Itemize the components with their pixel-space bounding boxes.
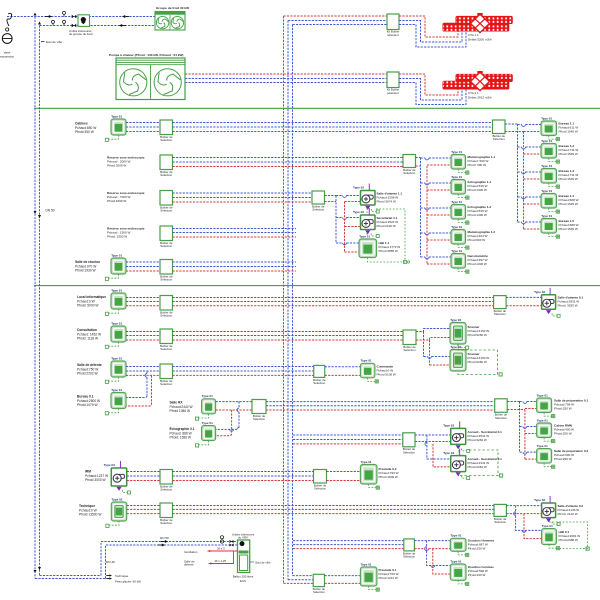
svg-text:46 x 1,25: 46 x 1,25 xyxy=(215,559,227,563)
svg-text:Pfroid 1800 W: Pfroid 1800 W xyxy=(107,199,126,203)
svg-text:Sélection: Sélection xyxy=(160,488,172,492)
riser Bureau column blue xyxy=(517,124,519,222)
wire row C3 left xyxy=(127,471,160,473)
svg-text:Type 01: Type 01 xyxy=(451,534,462,538)
riser Mammo column blue xyxy=(420,158,422,258)
wire kit1 to CTA1 blue loop 2 xyxy=(399,25,466,48)
selection box A2 xyxy=(160,155,173,177)
wire to Salle de préparation 0.1 xyxy=(520,401,524,403)
svg-text:Type 01: Type 01 xyxy=(451,559,462,563)
svg-text:Sélection: Sélection xyxy=(160,347,172,351)
wire D1R to Salle d'attente 0.2 xyxy=(506,505,541,507)
wire to scanner 2 xyxy=(424,356,428,358)
svg-text:Pompe à chaleur (Pfroid : 130: Pompe à chaleur (Pfroid : 130 kW, Pchaud… xyxy=(109,53,183,57)
fan coil Douches Femmes xyxy=(450,559,469,585)
wire B1R to unit xyxy=(506,296,541,298)
wire row B1 left xyxy=(126,297,160,299)
wire C1R to riser xyxy=(507,401,519,403)
svg-text:Type 01: Type 01 xyxy=(541,139,552,143)
selection box D2 right xyxy=(403,539,416,559)
fan coil Salle d'attente 1.1 xyxy=(353,184,379,214)
riser chilled supply xyxy=(287,21,289,580)
wire row D1 main xyxy=(173,505,495,507)
svg-text:Pfroid:1300 W: Pfroid:1300 W xyxy=(468,262,487,266)
wire B3R to Commande xyxy=(325,366,361,368)
svg-text:du VRV: du VRV xyxy=(238,535,248,539)
svg-text:Pfroid 1545 W: Pfroid 1545 W xyxy=(559,227,578,231)
svg-text:Type 03: Type 03 xyxy=(534,290,545,294)
svg-text:Pfroid 2118 W: Pfroid 2118 W xyxy=(377,224,396,228)
fan coil Bureau 0.1 xyxy=(105,388,126,415)
svg-text:Type 01: Type 01 xyxy=(451,225,462,229)
fan coil Échographie 1.1 xyxy=(451,175,469,199)
wire to Échographie 1.1 xyxy=(421,182,426,184)
svg-text:Pfroid 1545 W: Pfroid 1545 W xyxy=(559,177,578,181)
svg-text:Type 03: Type 03 xyxy=(353,210,364,214)
valves DN50 xyxy=(230,540,234,543)
wire kit2 to CTA2 blue loop 1 xyxy=(399,79,462,101)
pompe a chaleur unit xyxy=(116,58,185,100)
selection box A4 xyxy=(160,226,173,248)
vase expansion symbol xyxy=(2,13,12,43)
wire row B1 main xyxy=(173,297,494,299)
svg-text:Pfroid 13500 W: Pfroid 13500 W xyxy=(79,513,102,517)
indoor unit box groupe de froid xyxy=(78,15,90,27)
svg-text:Type 01: Type 01 xyxy=(451,175,462,179)
separator line floor 1 xyxy=(34,107,600,109)
svg-text:Sélection: Sélection xyxy=(494,520,506,524)
wire bottom main supply xyxy=(35,578,106,580)
svg-text:Pfroid:2088 W: Pfroid:2088 W xyxy=(559,538,578,542)
svg-text:Pfroid:1079 W: Pfroid:1079 W xyxy=(77,403,99,407)
svg-text:Type 03: Type 03 xyxy=(104,463,115,467)
wire D2R to Douches Hommes xyxy=(414,540,450,542)
fan coil Accueil 0.2 xyxy=(443,449,470,480)
fan coil Secretariat 1.1 xyxy=(353,208,379,238)
wire riser bottom turn xyxy=(293,575,314,577)
wire to Densitométrie xyxy=(421,256,426,258)
riser scanner red xyxy=(429,340,431,365)
wire VRV riser 2 xyxy=(106,545,239,579)
fan coil Bureau 1.4 xyxy=(541,189,559,213)
ballon ECS inner xyxy=(240,555,248,571)
svg-text:Type 02: Type 02 xyxy=(450,345,461,349)
fan coil Scanner 1 xyxy=(450,318,469,349)
svg-text:Peau glacée: 60 kW: Peau glacée: 60 kW xyxy=(115,579,141,583)
wire A2R to riser xyxy=(416,157,421,159)
fan coil Cabines xyxy=(105,114,126,141)
arrow on top line 1 xyxy=(49,15,52,18)
svg-text:Échographie 0.1: Échographie 0.1 xyxy=(170,426,195,431)
svg-text:Type 01: Type 01 xyxy=(537,418,548,422)
svg-text:Eau de ville: Eau de ville xyxy=(256,561,271,565)
wire to Salle d'attente 1.1 xyxy=(336,195,343,197)
ECS hot pipes xyxy=(208,550,238,552)
kit selection box 1 xyxy=(387,14,399,30)
fan coil Scanner 2 xyxy=(450,345,466,371)
svg-text:Sélection: Sélection xyxy=(313,590,325,594)
riser Bureau column red xyxy=(523,132,525,230)
fan coil Hall 0.1 xyxy=(542,524,560,550)
svg-text:Sélection: Sélection xyxy=(160,521,172,525)
riser cluster A3 red xyxy=(344,202,346,253)
label eau de ville ballon xyxy=(250,561,254,563)
wire B2R to scanner 1 xyxy=(416,329,450,332)
wire RX to boitier xyxy=(216,401,252,403)
svg-text:Type 01: Type 01 xyxy=(541,164,552,168)
wire to Bureau 1.1 xyxy=(518,124,522,126)
fan coil Mammographie 1.1 xyxy=(451,150,469,174)
selection box B1 xyxy=(160,296,173,318)
wire row A4 xyxy=(173,228,297,230)
svg-text:Type 01: Type 01 xyxy=(202,394,213,398)
bottom arrows technique xyxy=(109,574,112,576)
svg-text:Pfroid: 1118 W: Pfroid: 1118 W xyxy=(77,337,99,341)
svg-text:Type 03: Type 03 xyxy=(353,186,364,190)
selection box B1 right xyxy=(494,296,507,317)
svg-text:Sélection: Sélection xyxy=(494,312,506,316)
wire row B2 left xyxy=(126,331,160,333)
riser scanner blue xyxy=(423,332,425,357)
svg-text:Ventilation: Ventilation xyxy=(184,550,198,554)
wire row A1 main xyxy=(173,122,493,124)
svg-text:Sélection: Sélection xyxy=(160,244,172,248)
wire to Bureau 1.4 xyxy=(518,196,522,198)
selection box C1 right xyxy=(495,399,508,420)
svg-text:Type 02: Type 02 xyxy=(450,318,461,322)
selection box A3 right xyxy=(312,191,325,212)
fan coil Accueil 0.1 xyxy=(443,421,470,452)
air handling unit CTA 2.1 xyxy=(443,71,513,91)
riser accueil blue xyxy=(427,435,451,459)
wire A3R out xyxy=(325,195,337,197)
svg-text:DN 40: DN 40 xyxy=(106,560,115,564)
wire C2R to Accueil 1 xyxy=(415,434,451,436)
svg-text:Technique: Technique xyxy=(115,574,129,578)
svg-text:Type 01: Type 01 xyxy=(451,150,462,154)
fan coil Densitométrie xyxy=(451,249,469,273)
svg-text:Type 01: Type 01 xyxy=(111,321,122,325)
valves top lines xyxy=(72,15,77,19)
fan coil IRM xyxy=(104,461,131,494)
svg-text:CTA 1.1: CTA 1.1 xyxy=(468,33,479,37)
fan coil Local informatique xyxy=(105,288,126,315)
wire to Mammographie 1.1 xyxy=(421,157,426,159)
fan coil Consultation xyxy=(105,321,126,348)
selection box D1 right xyxy=(494,504,507,524)
junction arrows DN50 main xyxy=(34,211,37,214)
svg-text:Pfroid 5100 W: Pfroid 5100 W xyxy=(377,373,396,377)
svg-text:Sélection: Sélection xyxy=(160,314,172,318)
selection box RX xyxy=(252,400,266,422)
svg-text:Pfroid 1086 W: Pfroid 1086 W xyxy=(170,409,192,413)
riser douches red xyxy=(433,549,451,574)
junction arrows bottom left xyxy=(34,570,37,573)
svg-text:Sélection: Sélection xyxy=(160,173,172,177)
svg-text:Type 01: Type 01 xyxy=(111,114,122,118)
selection box B3 xyxy=(160,364,173,386)
wire kit1 to CTA1 hot loop xyxy=(399,16,458,37)
fan coil Technique xyxy=(106,497,127,527)
svg-text:Type 01: Type 01 xyxy=(541,116,552,120)
wire C3R to Prestade 0.2 xyxy=(327,471,361,473)
condensate accueil cluster xyxy=(459,450,498,476)
svg-text:Pfroid 1930 W: Pfroid 1930 W xyxy=(75,269,97,273)
svg-text:Sélection: Sélection xyxy=(403,450,415,454)
svg-text:Pfroid:1300 W: Pfroid:1300 W xyxy=(468,213,487,217)
wire row B3 left xyxy=(126,366,160,368)
wire HP-CTA2 hot xyxy=(185,73,387,75)
condensate scanner cluster xyxy=(458,344,498,375)
svg-text:Sélection: Sélection xyxy=(160,138,172,142)
svg-text:Type 01: Type 01 xyxy=(541,189,552,193)
selection box B2 right xyxy=(403,330,416,352)
svg-text:Sélection: Sélection xyxy=(160,382,172,386)
svg-text:Sélection: Sélection xyxy=(312,208,324,212)
svg-text:Sélection: Sélection xyxy=(403,171,415,175)
wire to Hall 1.1 xyxy=(336,242,343,244)
wire to Mammographie 1.2 xyxy=(421,232,426,234)
svg-text:Eau de ville: Eau de ville xyxy=(46,40,62,44)
wire row D1 left xyxy=(127,505,160,507)
wire row B2 main xyxy=(173,331,404,333)
riser cluster A3 blue xyxy=(335,196,337,244)
svg-text:Pfroid: 3535 W: Pfroid: 3535 W xyxy=(558,304,578,308)
sensors top lines xyxy=(63,14,65,16)
selection box B2 xyxy=(160,329,173,351)
svg-text:Type 01: Type 01 xyxy=(111,388,122,392)
selection box C2 right xyxy=(403,433,416,455)
svg-text:Pfroid 3674 W: Pfroid 3674 W xyxy=(377,200,396,204)
svg-text:Type 01: Type 01 xyxy=(111,253,122,257)
selection box D3 right xyxy=(313,574,326,594)
fan coil Prestade 0.1 xyxy=(360,562,379,591)
svg-text:Pfroid: 1500 W: Pfroid: 1500 W xyxy=(107,235,127,239)
wire chilled water main return xyxy=(39,26,41,576)
svg-text:Pfroid:350 W: Pfroid:350 W xyxy=(75,130,95,134)
svg-text:Pfroid:230 W: Pfroid:230 W xyxy=(468,573,486,577)
wire top line 1 xyxy=(7,16,155,18)
riser accueil red xyxy=(433,444,451,467)
groupe de froid unit xyxy=(155,12,185,31)
svg-text:Groupe de froid 30 kW: Groupe de froid 30 kW xyxy=(156,6,189,10)
wire kit2 to CTA2 blue loop 2 xyxy=(399,83,466,105)
svg-text:Pfroid:1300 W: Pfroid:1300 W xyxy=(468,188,487,192)
riser preparation blue xyxy=(519,402,521,453)
fan coil Salle de detente xyxy=(105,356,126,383)
sensors DN50 xyxy=(220,536,223,539)
selection box A1 right xyxy=(493,120,506,141)
wire Bureau 0.1 links xyxy=(146,371,148,374)
svg-text:ECS: ECS xyxy=(240,579,246,583)
wire CTA1 chilled supply xyxy=(287,20,289,22)
svg-text:Type 01: Type 01 xyxy=(111,288,122,292)
selection box B3 right xyxy=(313,365,326,385)
svg-text:Type 03: Type 03 xyxy=(443,424,454,428)
fan coil Douches Hommes xyxy=(450,534,469,557)
svg-text:Type 01: Type 01 xyxy=(111,356,122,360)
svg-text:Type 01: Type 01 xyxy=(361,460,372,464)
svg-text:Pfroid: 2140 W: Pfroid: 2140 W xyxy=(558,512,578,516)
svg-text:Pfroid 2000 W: Pfroid 2000 W xyxy=(107,164,126,168)
svg-text:DN 50: DN 50 xyxy=(46,209,55,213)
svg-text:Pfroid:230 W: Pfroid:230 W xyxy=(468,547,486,551)
svg-text:Type 01: Type 01 xyxy=(451,200,462,204)
svg-text:Pfroid:2202 W: Pfroid:2202 W xyxy=(77,372,99,376)
wire to Échographie 1.2 xyxy=(421,207,426,209)
wire to Salle de préparation 0.2 xyxy=(520,451,524,453)
svg-text:Type 01: Type 01 xyxy=(359,234,370,238)
svg-text:Sélection: Sélection xyxy=(493,137,505,141)
wire bottom main return xyxy=(40,575,102,577)
riser preparation red xyxy=(524,410,526,461)
selection box D1 xyxy=(160,503,173,525)
svg-text:Sélection: Sélection xyxy=(495,416,507,420)
svg-text:Pfroid:9250 W: Pfroid:9250 W xyxy=(468,333,487,337)
fan coil Échographie 1.2 xyxy=(451,200,469,224)
svg-text:Sélection: Sélection xyxy=(160,278,172,282)
riser hall blue xyxy=(516,506,542,531)
fan coil Hall 1.1 xyxy=(359,234,377,257)
fan coil Salle RX xyxy=(195,394,215,420)
selection box C3 xyxy=(160,470,173,492)
svg-text:Pfroid:250 W: Pfroid:250 W xyxy=(554,432,572,436)
svg-text:Type 01: Type 01 xyxy=(537,393,548,397)
fan coil Bureau 1.2 xyxy=(541,139,559,163)
wire row B3 main xyxy=(173,366,314,368)
svg-text:Sélection: Sélection xyxy=(314,487,326,491)
svg-text:Type 02: Type 02 xyxy=(112,497,123,501)
svg-text:Type 03: Type 03 xyxy=(534,498,545,502)
fan coil Prestade 0.2 xyxy=(360,460,379,489)
svg-text:Type 03: Type 03 xyxy=(443,451,454,455)
svg-text:Débits 5200 m3/h: Débits 5200 m3/h xyxy=(468,38,492,42)
wire row C3 main xyxy=(173,471,314,473)
riser hall red xyxy=(524,514,542,539)
wire row C1 main xyxy=(266,401,495,403)
riser douches blue xyxy=(427,541,451,566)
wire kit1 to CTA1 blue loop 1 xyxy=(399,21,462,43)
fan coil Bureau 1.1 xyxy=(541,116,559,140)
selection box A5 xyxy=(160,260,173,282)
svg-text:CTA 2.1: CTA 2.1 xyxy=(468,91,479,95)
svg-text:Pfroid 1600 W: Pfroid 1600 W xyxy=(379,475,398,479)
junction arrows top xyxy=(34,13,37,16)
svg-text:Type 01: Type 01 xyxy=(451,249,462,253)
wire top line 2 xyxy=(40,25,156,27)
wire CTA1 hot xyxy=(284,15,388,17)
svg-text:Pfroid:250 W: Pfroid:250 W xyxy=(554,457,572,461)
selection box C3 right xyxy=(314,470,327,491)
fan coil Salle de préparation 0.2 xyxy=(537,444,555,468)
svg-text:Pfroid:250 W: Pfroid:250 W xyxy=(554,407,572,411)
wire D3R to Prestade 0.1 xyxy=(325,575,361,577)
wire chilled water main supply xyxy=(34,17,36,579)
kit selection box 2 xyxy=(387,72,399,88)
svg-text:Type 01: Type 01 xyxy=(361,562,372,566)
svg-text:sélecteur: sélecteur xyxy=(387,33,399,37)
svg-text:Pfroid 1241 W: Pfroid 1241 W xyxy=(379,576,398,580)
svg-text:DN 50: DN 50 xyxy=(160,536,169,540)
wire row C2 main xyxy=(293,434,403,436)
condensate Salle d'attente 0.2 xyxy=(549,522,588,549)
svg-text:Sélection: Sélection xyxy=(404,348,416,352)
wire to Secretariat 1.1 xyxy=(336,217,343,219)
svg-text:Pfroid:9250 W: Pfroid:9250 W xyxy=(468,360,487,364)
fan coil Cabine RMN xyxy=(537,418,555,442)
svg-text:Pfroid:3284 W: Pfroid:3284 W xyxy=(468,465,487,469)
wire VRV riser 1 xyxy=(101,542,238,576)
fan coil Commande xyxy=(360,359,378,383)
selection box A3 xyxy=(160,191,173,213)
fan coil Mammographie 1.2 xyxy=(451,225,469,249)
wire to Bureau 1.2 xyxy=(518,146,522,148)
wire A1R to riser xyxy=(505,123,518,125)
riser chilled return xyxy=(292,25,294,576)
riser Mammo column red xyxy=(426,166,428,265)
label eau de ville xyxy=(41,41,45,43)
fan coil Salle d'attente 0.1 xyxy=(534,288,560,318)
VRV indoor unit box xyxy=(238,540,250,573)
svg-text:Sélection: Sélection xyxy=(253,417,265,421)
condensate drain cluster A3 xyxy=(367,205,405,263)
svg-text:expansion: expansion xyxy=(0,55,14,59)
wire kit2 to CTA2 hot loop xyxy=(399,74,458,95)
svg-text:Pfroid: 1586 W: Pfroid: 1586 W xyxy=(170,436,192,440)
fan coil Salle de préparation 0.1 xyxy=(537,393,555,417)
svg-text:détente: détente xyxy=(184,563,194,567)
air handling unit CTA 1.1 xyxy=(443,13,513,33)
riser hot water xyxy=(283,16,285,583)
svg-text:Débits 2912 m3/h: Débits 2912 m3/h xyxy=(468,96,492,100)
wire to Bureau 1.3 xyxy=(518,171,522,173)
fan coil Bureau 1.3 xyxy=(541,164,559,188)
svg-text:du groupe de froid: du groupe de froid xyxy=(69,32,93,36)
svg-text:Pfroid: 900 W: Pfroid: 900 W xyxy=(468,163,487,167)
svg-text:Sélection: Sélection xyxy=(403,555,415,559)
wire to Cabine RMN xyxy=(520,426,524,428)
wire row A1 left xyxy=(126,122,160,124)
wire row D2 main xyxy=(293,540,404,542)
fan coil Bureau 1.5 xyxy=(541,214,559,238)
svg-text:Sélection: Sélection xyxy=(160,209,172,213)
wire row A2 main xyxy=(173,157,404,159)
wire to Bureau 1.5 xyxy=(518,221,522,223)
wire HP-CTA2 chilled return xyxy=(185,82,387,84)
svg-text:Pfroid 1545 W: Pfroid 1545 W xyxy=(559,152,578,156)
svg-text:Pfroid 1545 W: Pfroid 1545 W xyxy=(559,202,578,206)
separator line ground floor xyxy=(34,285,600,287)
wire HP-CTA2 chilled supply xyxy=(185,78,387,80)
wire row A5 left xyxy=(126,261,160,263)
svg-text:Type 01: Type 01 xyxy=(361,359,372,363)
selection box A2 right xyxy=(403,155,416,176)
svg-text:Pfroid 3000 W: Pfroid 3000 W xyxy=(85,478,107,482)
fan coil Salle d'attente 0.2 xyxy=(534,496,560,526)
svg-text:Pfroid 1545 W: Pfroid 1545 W xyxy=(559,130,578,134)
svg-text:Type 01: Type 01 xyxy=(541,214,552,218)
fan coil Echographie 0.1 xyxy=(195,421,215,447)
selection box A1 xyxy=(160,120,173,142)
svg-text:Pfroid 3855 W: Pfroid 3855 W xyxy=(379,249,398,253)
svg-text:Type 01: Type 01 xyxy=(537,444,548,448)
wire row A3 main xyxy=(173,192,313,194)
svg-text:Type 01: Type 01 xyxy=(202,421,213,425)
arrows mid top lines xyxy=(122,15,125,18)
fan coil Salle de reunion xyxy=(105,253,126,280)
svg-text:26 x 3: 26 x 3 xyxy=(217,547,225,551)
wire to Echographie 0.1 xyxy=(238,402,240,409)
